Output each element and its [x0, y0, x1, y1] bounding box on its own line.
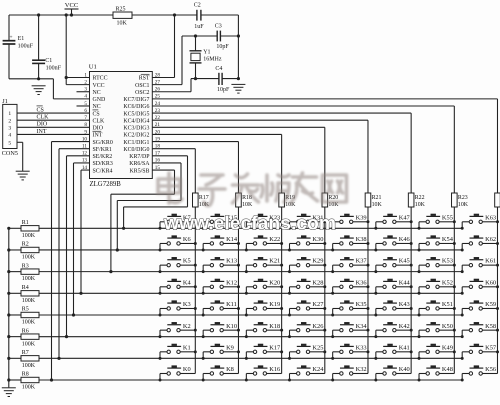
svg-text:KC3/DIG3: KC3/DIG3: [123, 126, 149, 132]
svg-text:GND: GND: [93, 97, 107, 103]
svg-text:4: 4: [84, 94, 87, 100]
resistor R22 10K: [408, 193, 425, 208]
wire OSC1 to crystal top: [152, 84, 182, 86]
switch key K9: [202, 344, 240, 359]
svg-text:10K: 10K: [372, 202, 383, 208]
svg-text:K33: K33: [356, 344, 367, 351]
wire KC5 (pin 23) bus to column 6: [152, 113, 411, 193]
svg-text:K8: K8: [226, 366, 234, 373]
svg-text:K22: K22: [269, 236, 280, 243]
switch key K50: [418, 323, 456, 338]
svg-text:INT: INT: [93, 133, 103, 139]
svg-text:100K: 100K: [22, 276, 36, 282]
switch key K23: [245, 214, 283, 229]
switch key K46: [374, 236, 412, 251]
svg-text:100K: 100K: [22, 320, 36, 326]
switch key K22: [245, 236, 283, 251]
svg-text:ZLG7289B: ZLG7289B: [90, 181, 122, 188]
svg-text:KR7/DP: KR7/DP: [129, 154, 150, 160]
svg-text:16MHz: 16MHz: [203, 57, 222, 63]
svg-text:K39: K39: [356, 214, 367, 221]
pin 12 SE/KR2 label: [82, 151, 112, 160]
wire KR0 (pin 10) to row 8: [50, 142, 90, 382]
wire J1 pin 5 to ground: [17, 141, 23, 143]
wire KR1 (pin 11) to row 7: [57, 149, 89, 360]
switch key K12: [202, 279, 240, 294]
wire C3 to grounded vertical: [220, 35, 238, 37]
svg-text:K41: K41: [399, 344, 410, 351]
svg-text:K36: K36: [356, 279, 367, 286]
switch key K0: [159, 366, 196, 381]
pin 5 NC stub: [77, 105, 90, 107]
switch key K11: [202, 301, 240, 316]
svg-text:K47: K47: [399, 214, 411, 221]
wire R25 to C2: [132, 14, 197, 16]
svg-text:CS: CS: [93, 111, 100, 117]
switch key K33: [331, 344, 369, 359]
svg-text:100K: 100K: [22, 255, 36, 261]
svg-text:C1: C1: [45, 58, 52, 64]
switch key K36: [331, 279, 369, 294]
svg-text:100nF: 100nF: [46, 66, 62, 72]
svg-text:27: 27: [155, 79, 161, 85]
switch key K62: [461, 236, 499, 251]
svg-text:K10: K10: [226, 323, 237, 330]
switch key K1: [159, 344, 197, 359]
svg-text:NC: NC: [93, 104, 101, 110]
svg-text:100K: 100K: [22, 298, 36, 304]
switch key K19: [245, 301, 283, 316]
svg-text:E1: E1: [18, 36, 25, 42]
switch key K39: [331, 214, 369, 229]
svg-text:KC5/DIG5: KC5/DIG5: [123, 111, 149, 117]
wire C4 to grounded vertical: [222, 78, 238, 80]
svg-text:K26: K26: [312, 323, 323, 330]
switch key K18: [245, 323, 283, 338]
pin 15 KR5/SB label: [130, 165, 161, 174]
resistor R5 100K: [7, 307, 39, 326]
svg-text:K60: K60: [485, 279, 496, 286]
wire C2 to grounded corner: [201, 14, 239, 16]
switch key K37: [331, 258, 369, 273]
svg-text:VCC: VCC: [65, 2, 79, 9]
wire J1 pin 1 to U1 (CS): [17, 106, 90, 114]
switch key K10: [202, 323, 240, 338]
wire J1 pin 4 to U1 (INT): [17, 127, 90, 135]
node C1/ground junction: [37, 77, 40, 80]
svg-text:K53: K53: [442, 258, 453, 265]
svg-text:K46: K46: [399, 236, 410, 243]
pin 23 KC5/DIG5 label: [123, 108, 160, 117]
switch key K20: [245, 279, 283, 294]
svg-text:KC7/DIG7: KC7/DIG7: [123, 97, 149, 103]
switch key K63: [461, 214, 499, 229]
capacitor C1 100nF: [32, 15, 62, 79]
svg-text:C2: C2: [194, 3, 201, 9]
wire column 8 vertical: [496, 207, 498, 373]
svg-text:K19: K19: [269, 301, 280, 308]
svg-text:NC: NC: [93, 90, 101, 96]
switch key K38: [331, 236, 369, 251]
svg-text:26: 26: [155, 87, 161, 93]
resistor R2 100K: [7, 242, 39, 261]
resistor R1 100K: [7, 220, 39, 239]
svg-text:K51: K51: [442, 301, 453, 308]
svg-text:1uF: 1uF: [194, 24, 204, 30]
ground symbol (J1): [16, 170, 30, 172]
switch key K56: [461, 366, 498, 381]
pin 3 NC label: [84, 87, 100, 96]
wire row 2 line: [39, 249, 462, 251]
switch key K55: [418, 214, 456, 229]
svg-text:C3: C3: [215, 23, 222, 29]
wire row 8 line: [39, 379, 462, 381]
switch key K3: [159, 301, 197, 316]
switch key K42: [374, 323, 412, 338]
svg-text:100uF: 100uF: [18, 44, 34, 50]
wire row 4 line: [39, 292, 462, 294]
pin 18 KC0/DIG0 label: [123, 144, 160, 153]
switch key K29: [288, 258, 326, 273]
svg-text:2: 2: [8, 118, 11, 124]
wire row 1 line: [39, 227, 462, 229]
switch key K47: [374, 214, 412, 229]
pin 11 SF/KR1 label: [82, 144, 112, 153]
crystal Y1 16MHz: [190, 36, 222, 79]
svg-text:K1: K1: [183, 344, 191, 351]
pin 28 RST label: [139, 72, 161, 81]
svg-text:CS: CS: [37, 108, 44, 114]
switch key K28: [288, 279, 326, 294]
wire OSC2 to crystal bottom: [152, 91, 191, 93]
pin 17 KR7/DP label: [129, 151, 160, 160]
svg-text:K44: K44: [399, 279, 411, 286]
connector J1 CON5: [2, 98, 18, 157]
wire column 1 vertical: [194, 207, 196, 373]
svg-text:K18: K18: [269, 323, 280, 330]
svg-text:K54: K54: [442, 236, 454, 243]
svg-text:+: +: [9, 35, 12, 41]
wire column 3 vertical: [281, 207, 283, 373]
svg-text:K58: K58: [485, 323, 496, 330]
svg-text:KC0/DIG0: KC0/DIG0: [123, 147, 149, 153]
svg-text:KR5/SB: KR5/SB: [130, 168, 150, 174]
switch key K52: [418, 279, 456, 294]
svg-text:3: 3: [8, 125, 11, 131]
wire KC1 (pin 19) bus to column 2: [152, 142, 238, 193]
switch key K24: [288, 366, 325, 381]
svg-text:K13: K13: [226, 258, 237, 265]
switch key K16: [245, 366, 282, 381]
wire KC2 (pin 20) bus to column 3: [152, 134, 281, 193]
svg-text:K14: K14: [226, 236, 238, 243]
svg-text:R4: R4: [22, 285, 29, 291]
resistor R8 100K: [7, 372, 39, 391]
svg-text:100K: 100K: [22, 233, 36, 239]
switch key K53: [418, 258, 456, 273]
switch key K27: [288, 301, 326, 316]
capacitor C4 10pF: [215, 66, 230, 93]
switch key K26: [288, 323, 326, 338]
wire row 6 line: [39, 336, 462, 338]
svg-text:C4: C4: [215, 66, 222, 72]
svg-text:K52: K52: [442, 279, 453, 286]
svg-text:K63: K63: [485, 214, 496, 221]
svg-text:K28: K28: [312, 279, 323, 286]
pin 14 SC/KR4 label: [82, 165, 113, 174]
switch key K15: [202, 214, 240, 229]
svg-text:K30: K30: [312, 236, 323, 243]
wire KR3 (pin 13) to row 5: [72, 163, 90, 317]
switch key K41: [374, 344, 412, 359]
switch key K5: [159, 258, 197, 273]
wire column 5 vertical: [367, 207, 369, 373]
wire KR7 (pin 17) to row 1: [122, 156, 188, 230]
wire KR6 (pin 16) to row 2: [116, 163, 181, 252]
svg-text:100K: 100K: [22, 341, 36, 347]
svg-text:Y1: Y1: [203, 50, 210, 56]
svg-text:5: 5: [8, 140, 11, 146]
svg-text:R17: R17: [199, 195, 209, 201]
svg-text:1: 1: [8, 111, 11, 117]
pin 2 VCC label: [84, 79, 104, 88]
svg-text:K62: K62: [485, 236, 496, 243]
wire KR2 (pin 12) to row 6: [65, 156, 90, 338]
wire row 3 line: [39, 271, 462, 273]
pin 6 CS label: [84, 108, 99, 117]
wire KC7 (pin 25) bus to column 8: [152, 99, 497, 193]
svg-text:10pF: 10pF: [216, 44, 229, 50]
svg-text:K21: K21: [269, 258, 280, 265]
switch key K30: [288, 236, 326, 251]
svg-text:OSC1: OSC1: [135, 83, 149, 89]
resistor R18 10K: [236, 193, 253, 208]
svg-text:KC2/DIG2: KC2/DIG2: [123, 133, 149, 139]
wire J1 pin 3 to U1 (DIO): [17, 122, 90, 128]
resistor R24 10K: [495, 193, 500, 208]
svg-text:R21: R21: [372, 195, 382, 201]
resistor R20 10K: [322, 193, 339, 208]
svg-text:SE/KR2: SE/KR2: [93, 154, 113, 160]
wire RST riser (pin 28 pull-up): [152, 77, 174, 79]
svg-text:DIO: DIO: [37, 122, 48, 128]
svg-text:28: 28: [155, 72, 161, 78]
pin 5 NC label: [84, 101, 100, 110]
pin 13 SD/KR3 label: [82, 158, 113, 167]
switch key K8: [202, 366, 239, 381]
svg-text:R2: R2: [22, 242, 29, 248]
svg-text:K32: K32: [356, 366, 367, 373]
switch key K61: [461, 258, 499, 273]
svg-text:K34: K34: [356, 323, 368, 330]
switch key K48: [418, 366, 455, 381]
pin 10 SG/KR0 label: [82, 136, 113, 145]
switch key K21: [245, 258, 283, 273]
pin 25 KC7/DIG7 label: [123, 94, 160, 103]
svg-text:KC6/DIG6: KC6/DIG6: [123, 104, 149, 110]
wire ground rail to GND pin: [9, 78, 53, 80]
switch key K6: [159, 236, 197, 251]
svg-text:K9: K9: [226, 344, 234, 351]
op chip U1 ZLG7289B: [89, 64, 153, 189]
pin 4 GND label: [84, 94, 106, 103]
capacitor E1 100uF (polarized): [3, 15, 34, 79]
svg-text:K49: K49: [442, 344, 453, 351]
switch key K54: [418, 236, 456, 251]
svg-text:K20: K20: [269, 279, 280, 286]
svg-text:K5: K5: [183, 258, 191, 265]
pin 21 KC3/DIG3 label: [123, 122, 160, 131]
wire left ground rail: [8, 228, 10, 387]
svg-text:R23: R23: [458, 195, 468, 201]
wire KC0 (pin 18) bus to column 1: [152, 149, 195, 193]
pin 26 OSC2 label: [135, 87, 160, 96]
svg-text:K0: K0: [183, 366, 191, 373]
wire RTCC pin1 to VCC riser: [66, 77, 89, 79]
svg-text:K11: K11: [226, 301, 237, 308]
svg-text:KC4/DIG4: KC4/DIG4: [123, 118, 149, 124]
svg-text:K43: K43: [399, 301, 410, 308]
resistor R17 10K: [193, 193, 210, 208]
svg-text:RST: RST: [139, 76, 150, 82]
svg-text:K29: K29: [312, 258, 323, 265]
switch key K43: [374, 301, 412, 316]
svg-text:R22: R22: [415, 195, 425, 201]
svg-text:K24: K24: [312, 366, 324, 373]
svg-text:10K: 10K: [415, 202, 426, 208]
pin 27 OSC1 label: [135, 79, 160, 88]
svg-text:K4: K4: [183, 279, 192, 286]
resistor R6 100K: [7, 328, 39, 347]
svg-text:CLK: CLK: [37, 115, 50, 121]
resistor R23 10K: [452, 193, 469, 208]
svg-text:SF/KR1: SF/KR1: [93, 147, 112, 153]
svg-text:K27: K27: [312, 301, 324, 308]
capacitor C2 1uF: [194, 3, 204, 30]
resistor R25 10K: [113, 7, 132, 27]
svg-text:10pF: 10pF: [217, 87, 230, 93]
switch key K32: [331, 366, 368, 381]
svg-text:1: 1: [84, 72, 87, 78]
pin 3 NC stub: [77, 91, 90, 93]
ground symbol (oscillator): [231, 83, 245, 85]
pin 1 RTCC label: [84, 72, 107, 81]
svg-text:KC1/DIG1: KC1/DIG1: [123, 140, 149, 146]
wire column 2 vertical: [237, 207, 239, 373]
wire KC4 (pin 22) bus to column 5: [152, 120, 368, 193]
svg-text:SG/KR0: SG/KR0: [93, 140, 113, 146]
wire VCC top rail: [9, 14, 113, 16]
svg-text:2: 2: [84, 79, 87, 85]
switch key K4: [159, 279, 197, 294]
wire column 7 vertical: [453, 207, 455, 373]
svg-text:SD/KR3: SD/KR3: [93, 161, 113, 167]
pin 9 INT label: [84, 129, 102, 138]
decorative watermark (chinese brush characters): [158, 173, 347, 206]
pin 7 CLK label: [84, 115, 105, 124]
svg-text:K61: K61: [485, 258, 496, 265]
switch key K59: [461, 301, 499, 316]
svg-text:DIO: DIO: [93, 126, 104, 132]
pin 8 DIO label: [84, 122, 103, 131]
switch key K40: [374, 366, 411, 381]
wire J1 pin 2 to U1 (CLK): [17, 115, 90, 121]
pin 16 KR6/SA label: [129, 158, 160, 167]
ground symbol (power filter): [32, 85, 46, 87]
switch key K7: [159, 214, 197, 229]
svg-text:K55: K55: [442, 214, 453, 221]
resistor R19 10K: [279, 193, 296, 208]
svg-text:10K: 10K: [242, 202, 253, 208]
resistor R21 10K: [365, 193, 382, 208]
switch key K34: [331, 323, 369, 338]
svg-text:RTCC: RTCC: [93, 76, 108, 82]
svg-text:K16: K16: [269, 366, 280, 373]
svg-text:K12: K12: [226, 279, 237, 286]
svg-text:R8: R8: [22, 372, 29, 378]
pin 22 KC4/DIG4 label: [123, 115, 160, 124]
pin 19 KC1/DIG1 label: [123, 136, 160, 145]
svg-text:K40: K40: [399, 366, 410, 373]
svg-text:R1: R1: [22, 220, 29, 226]
wire row 7 line: [39, 357, 462, 359]
svg-text:K48: K48: [442, 366, 453, 373]
svg-text:10K: 10K: [117, 21, 128, 27]
svg-text:VCC: VCC: [93, 83, 105, 89]
switch key K25: [288, 344, 326, 359]
svg-text:K25: K25: [312, 344, 323, 351]
svg-text:K35: K35: [356, 301, 367, 308]
svg-text:K45: K45: [399, 258, 410, 265]
resistor R3 100K: [7, 263, 39, 282]
node crystal bottom junction: [194, 77, 197, 80]
wire column 4 vertical: [324, 207, 326, 373]
node VCC junction dots: [37, 13, 40, 16]
svg-text:K17: K17: [269, 344, 281, 351]
svg-text:R5: R5: [22, 307, 29, 313]
wire KC3 (pin 21) bus to column 4: [152, 127, 325, 193]
svg-text:4: 4: [8, 133, 11, 139]
wire grounded vertical: [237, 15, 239, 79]
wire KC6 (pin 24) bus to column 7: [152, 106, 454, 193]
VCC power symbol: [65, 2, 79, 15]
svg-text:100K: 100K: [22, 385, 36, 391]
svg-text:K3: K3: [183, 301, 191, 308]
svg-text:KR6/SA: KR6/SA: [129, 161, 150, 167]
svg-text:K50: K50: [442, 323, 453, 330]
svg-text:CLK: CLK: [93, 118, 106, 124]
svg-text:www.elecfans.com: www.elecfans.com: [163, 214, 336, 235]
svg-text:K59: K59: [485, 301, 496, 308]
svg-text:CON5: CON5: [2, 150, 18, 157]
svg-text:U1: U1: [89, 64, 97, 71]
switch key K31: [288, 214, 326, 229]
svg-text:K57: K57: [485, 344, 497, 351]
pin 24 KC6/DIG6 label: [123, 101, 160, 110]
wire KR4 (pin 14) to row 4: [79, 170, 89, 295]
capacitor C3 10pF: [215, 23, 230, 50]
wire row 5 line: [39, 314, 462, 316]
svg-text:OSC2: OSC2: [135, 90, 149, 96]
svg-text:10K: 10K: [458, 202, 469, 208]
pin 20 KC2/DIG2 label: [123, 129, 160, 138]
switch key K35: [331, 301, 369, 316]
switch key K58: [461, 323, 499, 338]
svg-text:R6: R6: [22, 328, 29, 334]
svg-text:R7: R7: [22, 350, 29, 356]
switch key K49: [418, 344, 456, 359]
svg-text:K37: K37: [356, 258, 368, 265]
